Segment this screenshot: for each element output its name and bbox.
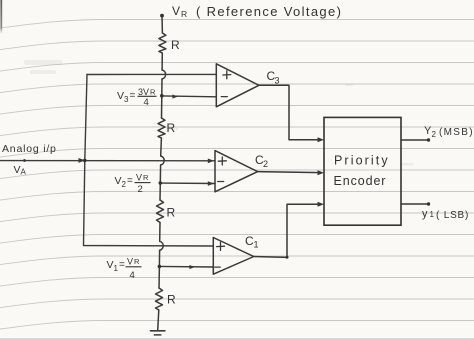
svg-text:V: V	[14, 164, 21, 176]
svg-text:1: 1	[430, 210, 435, 219]
svg-text:4: 4	[130, 270, 135, 281]
svg-text:A: A	[21, 168, 27, 177]
svg-text:3V: 3V	[138, 87, 149, 97]
svg-text:=: =	[119, 260, 125, 271]
svg-text:4: 4	[144, 97, 149, 108]
svg-text:1: 1	[254, 240, 259, 250]
svg-text:y: y	[422, 208, 428, 220]
svg-text:3: 3	[275, 76, 280, 86]
svg-text:V: V	[127, 257, 133, 267]
svg-text:R: R	[150, 88, 156, 97]
svg-text:=: =	[130, 91, 136, 102]
svg-text:Encoder: Encoder	[334, 174, 387, 188]
svg-text:( LSB): ( LSB)	[436, 210, 469, 221]
svg-text:R: R	[134, 257, 140, 266]
svg-text:V: V	[136, 173, 142, 183]
svg-text:2: 2	[122, 180, 127, 189]
svg-text:R: R	[181, 9, 187, 19]
svg-text:Analog i/p: Analog i/p	[2, 143, 57, 155]
svg-text:V: V	[117, 90, 124, 102]
svg-text:V: V	[115, 175, 122, 187]
svg-text:2: 2	[138, 184, 143, 195]
svg-text:R: R	[167, 121, 176, 135]
svg-text:R: R	[167, 206, 176, 220]
svg-text:2: 2	[432, 130, 437, 139]
svg-text:Priority: Priority	[334, 154, 390, 168]
svg-text:V: V	[172, 4, 180, 18]
svg-text:( Reference Voltage): ( Reference Voltage)	[196, 4, 342, 19]
svg-text:(MSB): (MSB)	[439, 127, 474, 138]
svg-text:3: 3	[124, 95, 129, 104]
svg-text:R: R	[143, 173, 149, 182]
svg-text:1: 1	[114, 264, 119, 273]
svg-text:R: R	[171, 38, 180, 52]
svg-text:V: V	[107, 259, 114, 271]
svg-text:=: =	[127, 176, 133, 187]
svg-text:R: R	[167, 293, 176, 307]
svg-text:2: 2	[263, 159, 268, 169]
